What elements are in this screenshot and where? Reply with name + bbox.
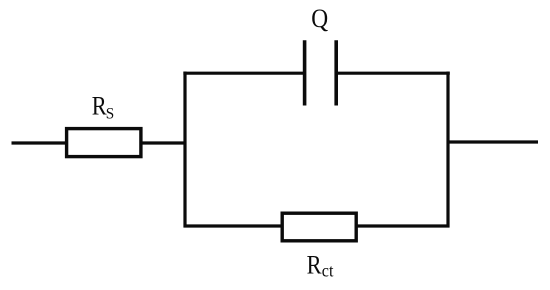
wire: top branch left segment bbox=[183, 72, 304, 75]
capacitor Q right plate bbox=[334, 40, 338, 105]
svg-text:ct: ct bbox=[322, 261, 334, 281]
svg-text:Q: Q bbox=[311, 5, 328, 33]
svg-text:R: R bbox=[307, 251, 323, 280]
capacitor Q left plate bbox=[303, 40, 307, 105]
resistor R_S bbox=[67, 129, 141, 157]
wire: right output lead bbox=[448, 140, 538, 143]
wire: bottom branch right segment bbox=[356, 224, 450, 227]
svg-text:S: S bbox=[106, 105, 114, 122]
wire: top branch right segment bbox=[336, 72, 450, 75]
wire: R_S to left node bbox=[141, 141, 187, 144]
node A: left rail bbox=[183, 72, 186, 228]
node B: right rail bbox=[446, 72, 449, 228]
wire: left input lead bbox=[12, 141, 67, 144]
resistor R_ct bbox=[282, 213, 356, 241]
wire: bottom branch left segment bbox=[184, 224, 283, 227]
